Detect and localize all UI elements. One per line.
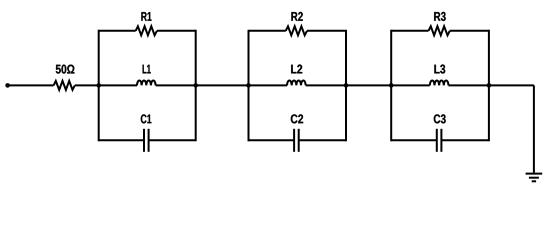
- wire: tank 2 top-right segment: [307, 30, 346, 32]
- node D junction (tank 2 right): [344, 83, 349, 88]
- wire: tank 2 middle-right segment: [306, 84, 346, 86]
- label C3: [434, 114, 446, 123]
- wire: input lead to 50ohm resistor: [8, 84, 54, 86]
- capacitor C3 plates: [437, 129, 442, 152]
- wire: tank 2 top-left segment: [249, 30, 286, 32]
- capacitor C2 plates: [294, 129, 299, 152]
- wire: tank 3 middle-left segment: [391, 84, 430, 86]
- label L3: [434, 65, 445, 74]
- wire: tank 3 middle-right segment: [448, 84, 489, 86]
- value label 50&#937;: [56, 65, 75, 74]
- wire: tank 1 middle-right segment: [156, 84, 196, 86]
- resistor 50&#937;: [54, 81, 75, 90]
- wire: tank 1 bottom-right segment: [149, 139, 196, 141]
- label R2: [291, 12, 302, 21]
- wire: tank 3 bottom-left segment: [391, 139, 437, 141]
- label C2: [291, 114, 303, 123]
- wire: tank 3 to output corner: [489, 84, 534, 86]
- resistor R3: [429, 26, 450, 35]
- wire: tank 2 to tank 3: [346, 84, 391, 86]
- wire: tank 2 left vertical: [248, 30, 250, 142]
- label C1: [141, 114, 152, 123]
- wire: tank 1 top-left segment: [99, 30, 136, 32]
- wire: tank 3 top-left segment: [391, 30, 428, 32]
- node B junction (tank 1 right): [193, 83, 198, 88]
- wire: tank 1 right vertical: [195, 30, 197, 142]
- node A junction (tank 1 left): [96, 83, 101, 88]
- label L1: [143, 65, 151, 74]
- wire: vertical drop to ground: [533, 85, 535, 172]
- wire: tank 2 bottom-left segment: [249, 139, 295, 141]
- wire: tank 2 bottom-right segment: [299, 139, 346, 141]
- wire: tank 1 left vertical: [98, 30, 100, 142]
- wire: tank 3 right vertical: [488, 30, 490, 142]
- input terminal node: [5, 83, 10, 88]
- wire: tank 3 top-right segment: [450, 30, 489, 32]
- label L2: [291, 65, 302, 74]
- wire: tank 3 left vertical: [390, 30, 392, 142]
- resistor R2: [286, 26, 307, 35]
- inductor L2: [287, 80, 306, 85]
- label R1: [141, 12, 151, 21]
- node E junction (tank 3 left): [389, 83, 394, 88]
- wire: 50ohm resistor to node 1: [75, 84, 99, 86]
- wire: tank 1 top-right segment: [157, 30, 196, 32]
- inductor L1: [137, 80, 156, 85]
- node C junction (tank 2 left): [246, 83, 251, 88]
- resistor R1: [136, 26, 157, 35]
- wire: tank 1 to tank 2: [196, 84, 249, 86]
- wire: tank 2 middle-left segment: [249, 84, 288, 86]
- wire: tank 2 right vertical: [345, 30, 347, 142]
- label R3: [434, 12, 446, 21]
- wire: tank 1 middle-left segment: [99, 84, 137, 86]
- node F junction (tank 3 right): [487, 83, 492, 88]
- wire: tank 3 bottom-right segment: [441, 139, 489, 141]
- ground symbol: [526, 174, 543, 182]
- wire: tank 1 bottom-left segment: [99, 139, 144, 141]
- capacitor C1 plates: [144, 129, 149, 152]
- inductor L3: [430, 80, 449, 85]
